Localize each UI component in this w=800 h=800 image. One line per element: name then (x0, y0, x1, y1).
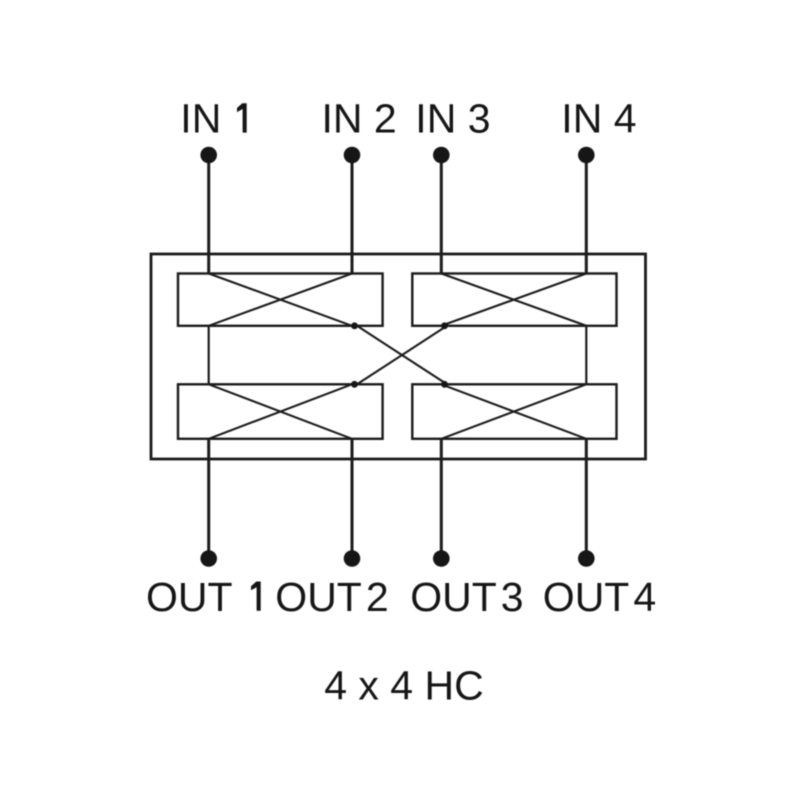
wire IN4 stub (585, 155, 588, 274)
terminal OUT4 (578, 550, 595, 567)
terminal IN4 (578, 147, 595, 164)
wire TR-BR right link (585, 326, 587, 385)
junction node TL-right (351, 322, 358, 329)
coupler box TL (178, 274, 383, 326)
wire IN3 stub (440, 155, 443, 274)
outer box (4x4 HC block) (151, 254, 646, 459)
coupler TR cross (441, 274, 586, 326)
svg-text:IN 3: IN 3 (415, 96, 490, 142)
svg-text:4 x 4 HC: 4 x 4 HC (324, 663, 484, 709)
coupler BR cross (441, 384, 586, 439)
svg-text:IN 2: IN 2 (322, 96, 397, 142)
svg-text:OUT: OUT (146, 574, 233, 620)
wire OUT4 stub (585, 439, 588, 559)
terminal OUT2 (344, 550, 361, 567)
junction node BR-left (441, 381, 448, 388)
terminal OUT3 (433, 550, 450, 567)
terminal IN2 (344, 147, 361, 164)
coupler BL cross (209, 384, 352, 439)
terminal IN3 (433, 147, 450, 164)
wire OUT3 stub (440, 439, 443, 559)
wire TL-BL left link (208, 326, 210, 385)
center crossover wires (357, 326, 447, 385)
coupler box TR (412, 274, 616, 326)
wire OUT2 stub (351, 439, 354, 559)
coupler TL cross (209, 274, 352, 326)
wire IN2 stub (351, 155, 354, 274)
coupler box BR (412, 384, 616, 439)
svg-text:IN: IN (180, 96, 221, 142)
junction node TR-left (441, 322, 448, 329)
terminal IN1 (200, 147, 217, 164)
wire IN1 stub (207, 155, 210, 274)
junction node BL-right (351, 381, 358, 388)
wire OUT1 stub (207, 439, 210, 559)
terminal OUT1 (200, 550, 217, 567)
coupler box BL (178, 384, 383, 439)
svg-text:IN 4: IN 4 (561, 96, 636, 142)
svg-text:OUT3: OUT3 (410, 574, 523, 620)
svg-text:OUT4: OUT4 (543, 574, 656, 620)
svg-text:OUT2: OUT2 (275, 574, 388, 620)
